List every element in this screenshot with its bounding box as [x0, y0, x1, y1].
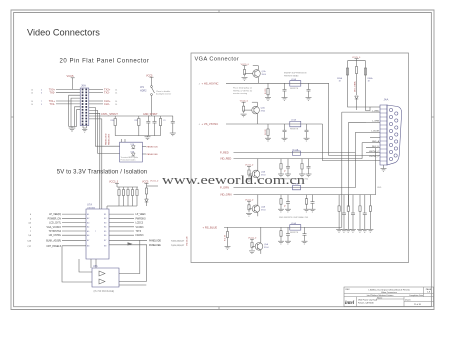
wire pin1 left: [56, 88, 80, 90]
wire pin3 left: [56, 91, 80, 93]
resistor cap pair blue 1: [280, 227, 290, 241]
svg-text:L_BLUE: L_BLUE: [371, 131, 379, 133]
svg-text:L12A: L12A: [291, 78, 296, 81]
vertical bus line 4b: [361, 143, 363, 159]
svg-text:Video Connectors: Video Connectors: [27, 28, 100, 38]
zener box D1: [120, 139, 143, 162]
svg-text:4: 4: [199, 83, 200, 85]
svg-text:PWRON3: PWRON3: [136, 218, 147, 220]
resistor cap pair grn 1: [280, 195, 290, 210]
svg-text:L14A: L14A: [291, 222, 296, 225]
resistor R32 hanging: [159, 116, 161, 136]
power flag VCC5 right cluster: [142, 181, 149, 188]
power flag VCC5: [67, 74, 75, 89]
note EMI suppression: [284, 73, 307, 78]
resistor R40: [145, 188, 147, 199]
svg-text:Protection Diodes: Protection Diodes: [121, 158, 136, 161]
svg-text:intel: intel: [345, 301, 355, 306]
termination rc pair 4: [369, 195, 371, 230]
svg-text:J4A: J4A: [384, 97, 389, 101]
svg-text:GND_STRUT: GND_STRUT: [143, 113, 158, 116]
title block line under row1: [344, 293, 434, 295]
ground Q1: [242, 77, 251, 81]
resistor R31 hanging: [138, 116, 140, 136]
resistor RP1: [118, 187, 120, 206]
svg-text:PANELVEE: PANELVEE: [147, 153, 159, 156]
svg-text:TFT3: TFT3: [136, 231, 142, 233]
grounds grn pair 2: [304, 209, 316, 212]
svg-text:7,8,14,15,16,17: 7,8,14,15,16,17: [171, 245, 184, 247]
gnd rail under cluster: [115, 136, 160, 137]
svg-text:VSYNC_C: VSYNC_C: [369, 156, 379, 158]
ground R60: [225, 247, 231, 250]
series resistor R52A on grn: [293, 183, 301, 190]
series resistor R51A on red: [293, 148, 301, 155]
grounds red pair 1: [278, 174, 291, 177]
svg-text:(IS 74F PACKAGE): (IS 74F PACKAGE): [94, 290, 115, 293]
ferrite L12A: [290, 78, 301, 90]
zener box wires right: [142, 147, 146, 155]
chip left page refs: [27, 214, 31, 248]
wire pin2 right: [89, 88, 103, 90]
DB15 red pin labels: [369, 110, 380, 158]
capacitor C32 vsync: [283, 124, 287, 138]
vertical bus line 3: [355, 131, 366, 133]
svg-text:SMD FERRITE CHIP BEAD 70Ω: SMD FERRITE CHIP BEAD 70Ω: [279, 216, 309, 219]
svg-text:LP_VEE3: LP_VEE3: [136, 214, 147, 216]
title block line under row2: [344, 296, 434, 298]
ground cap blue 2: [302, 241, 308, 244]
svg-text:R 51A: R 51A: [293, 148, 299, 151]
svg-text:U8A: U8A: [93, 265, 98, 268]
svg-text:Folsom, CA 95630: Folsom, CA 95630: [358, 301, 374, 304]
capacitor C30 hsync: [283, 83, 287, 97]
power flag VCC5 backlight: [146, 74, 154, 85]
svg-text:75: 75: [284, 205, 286, 207]
grounds term 2: [345, 229, 356, 232]
DB15 pin circles col1: [389, 108, 392, 160]
svg-text:CNTL_STRUT: CNTL_STRUT: [101, 112, 118, 116]
svg-text:B8: B8: [104, 246, 106, 248]
power flag VCC3_3: [109, 181, 119, 187]
svg-text:HDR2: HDR2: [140, 90, 147, 93]
svg-text:R84A: R84A: [368, 77, 374, 80]
transistor cluster Q2 VSYNC: [240, 100, 266, 124]
svg-text:FERRITE BEAD: FERRITE BEAD: [284, 74, 299, 77]
DB15 bottom ground stem: [381, 165, 387, 171]
ground R10: [265, 98, 271, 101]
vertical bus line 2b: [348, 122, 350, 207]
wire pin4 right: [89, 91, 103, 93]
zener D1a symbol: [131, 143, 136, 149]
svg-text:Q1A: Q1A: [262, 70, 267, 73]
svg-text:A4: A4: [87, 226, 89, 229]
svg-text:J6A: J6A: [81, 83, 86, 87]
svg-text:TX1-: TX1-: [49, 102, 55, 106]
ground Q2: [241, 114, 247, 117]
svg-text:Q5A: Q5A: [264, 243, 269, 246]
svg-text:VID_GRN: VID_GRN: [220, 193, 232, 197]
grounds red pair 2: [299, 174, 312, 177]
svg-text:B4: B4: [104, 227, 106, 229]
svg-text:L13A: L13A: [291, 119, 296, 122]
resistor cap pair red 2: [301, 159, 311, 174]
ground C31: [306, 98, 312, 101]
svg-text:R 100: R 100: [265, 88, 267, 94]
svg-text:20 Pin Flat Panel Connector: 20 Pin Flat Panel Connector: [60, 59, 150, 65]
vertical bus line 5: [375, 148, 377, 195]
svg-text:L_RED: L_RED: [372, 110, 379, 112]
U8A gate symbol 2: [99, 279, 105, 284]
capacitor C22: [171, 116, 175, 133]
wire chip left down to U8A: [62, 246, 92, 282]
title block vertical logo cell: [356, 297, 358, 307]
svg-text:A8: A8: [87, 245, 89, 248]
left ground bus wires: [69, 95, 81, 128]
svg-text:Q4A: Q4A: [261, 205, 266, 208]
wire CNTL bus: [135, 115, 173, 117]
ground R11: [265, 138, 271, 141]
diode center branch: [355, 96, 359, 110]
svg-text:Drawn:: Drawn:: [405, 298, 411, 301]
svg-text:Completion Date: Completion Date: [409, 294, 423, 297]
DB15 pin strip: [380, 105, 387, 165]
svg-text:4: 4: [30, 218, 31, 220]
svg-text:4: 4: [30, 214, 31, 216]
svg-text:QS3384: QS3384: [87, 207, 96, 209]
svg-text:5,6: 5,6: [28, 235, 31, 237]
svg-text:BLNK_ADJ(R): BLNK_ADJ(R): [46, 239, 61, 242]
resistor RP4: [131, 187, 133, 206]
svg-text:Q2A: Q2A: [261, 107, 266, 110]
ground Q3: [246, 179, 252, 182]
wire hsync corner down: [329, 83, 380, 155]
grounds term 4: [367, 229, 373, 232]
svg-text:7,17: 7,17: [27, 246, 31, 248]
ground C33: [304, 138, 310, 141]
resistor R60 blue hanging: [225, 227, 229, 246]
svg-text:Place 100Ω pullup on: Place 100Ω pullup on: [233, 88, 252, 90]
DB15 shell: [387, 105, 402, 165]
ground Q4: [246, 213, 252, 216]
wire P_RED: [234, 152, 356, 154]
svg-text:R83A: R83A: [337, 77, 343, 80]
svg-text:1900 Prairie City Road: 1900 Prairie City Road: [358, 299, 377, 302]
svg-text:75: 75: [284, 170, 286, 172]
zener caption: [121, 156, 138, 161]
wire HSYNC: [226, 82, 329, 84]
svg-text:PANELVEE: PANELVEE: [149, 244, 161, 247]
svg-text:VCC5_0: VCC5_0: [150, 181, 159, 183]
svg-text:7,8,14,15,16,17: 7,8,14,15,16,17: [171, 240, 184, 242]
sheet inner border: [14, 13, 432, 307]
ground symbol left bus: [69, 128, 76, 131]
svg-text:VID_BLUE: VID_BLUE: [187, 236, 189, 246]
svg-text:B1: B1: [104, 214, 106, 216]
termination rc pair 1: [338, 195, 346, 230]
svg-text:R 4.7K: R 4.7K: [225, 234, 227, 241]
svg-text:Name:: Name:: [377, 298, 383, 300]
svg-text:VID_RED: VID_RED: [220, 157, 231, 161]
svg-text:P_RED: P_RED: [220, 151, 229, 155]
svg-text:4,5: 4,5: [28, 223, 31, 225]
note close to disable backlight: [156, 90, 171, 96]
transistor cluster Q1 HSYNC: [241, 64, 267, 84]
svg-text:L_GRN: L_GRN: [372, 121, 379, 123]
transistor cluster Q3 red: [245, 159, 266, 182]
zone tick bottom border: [218, 307, 220, 310]
grounds term 1: [336, 229, 347, 232]
svg-text:FERRITE: FERRITE: [290, 232, 299, 234]
svg-text:A7: A7: [87, 239, 89, 242]
wires bottom pins down: [83, 126, 86, 128]
wire pin8 right: [89, 100, 103, 102]
svg-text:B7: B7: [104, 240, 106, 242]
ferrite grn 2: [305, 195, 314, 210]
svg-text:PANELVDD: PANELVDD: [149, 239, 161, 242]
termination rc pair 3: [359, 195, 367, 230]
grounds term 3: [357, 229, 368, 232]
chip left row wires: [62, 214, 86, 246]
resistor RP2: [122, 187, 124, 206]
ground C32: [282, 138, 288, 141]
svg-text:+ VS_VSYNC: + VS_VSYNC: [202, 122, 219, 126]
svg-text:P_GRN: P_GRN: [220, 186, 229, 190]
grounds grn pair 1: [278, 209, 291, 212]
svg-text:REV: REV: [346, 289, 351, 291]
resistor center branch: [354, 67, 358, 96]
svg-text:PANELVDD: PANELVDD: [147, 145, 159, 148]
svg-text:PAGE: PAGE: [426, 288, 432, 291]
title block vertical page cell: [423, 287, 425, 297]
cap at hsync corner: [310, 82, 312, 84]
svg-text:Video Connectors: Video Connectors: [381, 291, 397, 294]
wire VID_RED: [234, 158, 363, 160]
wire VID_GRN: [234, 194, 376, 196]
svg-text:GND_A: GND_A: [372, 140, 380, 143]
svg-text:VGA Connector: VGA Connector: [195, 57, 240, 63]
DB15 pin circles col2: [394, 112, 398, 157]
svg-text:Close to disable: Close to disable: [156, 90, 171, 93]
svg-text:LWCN3: LWCN3: [136, 235, 145, 237]
svg-text:B2: B2: [104, 218, 106, 220]
svg-text:B6: B6: [104, 235, 106, 237]
svg-text:FERRITE: FERRITE: [290, 88, 299, 90]
vertical bus line 3b: [354, 132, 356, 187]
svg-text:backlight inverter: backlight inverter: [156, 93, 171, 96]
zener D1b symbol: [131, 150, 136, 156]
ground symbol cluster: [145, 137, 151, 140]
wire P_GRN: [234, 187, 356, 189]
svg-text:TX0-: TX0-: [49, 90, 55, 94]
chip right page refs: [171, 240, 184, 247]
ferrite L14A: [290, 222, 301, 234]
wire CTRL row right long: [89, 115, 135, 117]
capacitor C20: [146, 116, 150, 136]
connector J6A body: [80, 88, 89, 126]
title block frame: [344, 287, 434, 307]
ground Q5: [249, 251, 255, 254]
cap blue 2: [303, 227, 307, 241]
wire jumper to bus: [151, 95, 153, 116]
VGA section box: [191, 53, 409, 263]
chip right net labels: [136, 214, 162, 247]
jumper JP1: [151, 86, 155, 96]
resistor R10 pullup hsync: [265, 83, 269, 97]
svg-text:7: 7: [30, 231, 31, 233]
svg-text:VCC5: VCC5: [67, 74, 74, 78]
wire left down second: [79, 259, 92, 272]
transistor cluster Q4 grn: [245, 195, 266, 217]
sheet outer border: [11, 10, 434, 310]
svg-text:21 of 36: 21 of 36: [414, 304, 421, 306]
title block vertical fields cell: [403, 297, 405, 307]
svg-text:A5: A5: [87, 230, 89, 233]
svg-text:EMI/RFI SUPPRESSION: EMI/RFI SUPPRESSION: [284, 73, 307, 75]
svg-text:A2: A2: [87, 217, 89, 220]
svg-text:POWER_ON: POWER_ON: [48, 218, 62, 220]
top right branch cluster rails: [348, 57, 371, 111]
svg-text:+ RS_BLUE: + RS_BLUE: [203, 226, 218, 230]
resistor R83A: [337, 68, 349, 83]
svg-text:VCON3: VCON3: [136, 227, 145, 229]
svg-text:GND: GND: [377, 187, 382, 189]
svg-text:R 52A: R 52A: [293, 183, 299, 186]
svg-text:R 100: R 100: [265, 128, 267, 134]
wire pin9 left: [56, 103, 80, 105]
zone tick top border: [218, 10, 220, 13]
svg-text:Q3A: Q3A: [261, 171, 266, 174]
wire pin7 left: [56, 100, 80, 102]
vertical bus line 4: [362, 142, 366, 144]
chip bottom wires to U8A: [91, 259, 96, 268]
svg-text:LW_CNTRL: LW_CNTRL: [49, 235, 62, 237]
svg-text:TX2-: TX2-: [104, 90, 110, 94]
svg-text:B3: B3: [104, 222, 106, 224]
title block line fields mid: [404, 301, 434, 303]
svg-text:TFT/DSTN4: TFT/DSTN4: [49, 231, 62, 233]
svg-text:LCDC3: LCDC3: [136, 223, 144, 225]
svg-text:4: 4: [30, 227, 31, 229]
transistor cluster Q5 blue: [248, 227, 269, 254]
diode D2: [145, 199, 149, 206]
svg-text:FERRITE: FERRITE: [290, 129, 299, 131]
svg-text:A3: A3: [87, 221, 89, 224]
svg-text:HSYNC_C: HSYNC_C: [369, 151, 379, 153]
svg-text:B5: B5: [104, 231, 106, 233]
resistor array rail: [117, 186, 138, 188]
resistor RP5: [136, 187, 138, 206]
chip left net labels: [46, 214, 62, 248]
stub ddc: [366, 147, 376, 149]
svg-text:4: 4: [199, 124, 200, 126]
capacitor C33 vsync: [305, 124, 309, 138]
net arrow symbol: [128, 242, 133, 245]
resistor R30 hanging: [114, 116, 116, 136]
termination rc pair 2: [347, 195, 355, 230]
svg-text:VGA_VCONO: VGA_VCONO: [46, 226, 61, 229]
svg-text:U7A: U7A: [87, 203, 92, 207]
wire R40 to net right: [147, 185, 159, 187]
resistor cap pair red 1: [280, 159, 290, 174]
wire pin10 right: [89, 103, 103, 105]
svg-text:5,16: 5,16: [27, 240, 31, 242]
svg-text:+ HS_HSYNC: + HS_HSYNC: [202, 81, 219, 85]
ground symbol C22: [170, 133, 176, 136]
zone tick right border: [431, 116, 434, 118]
svg-text:monitor sensing: monitor sensing: [233, 92, 247, 95]
wires right bending down: [89, 108, 120, 210]
svg-text:PANELVEE: PANELVEE: [108, 133, 111, 145]
ferrite L13A: [290, 119, 301, 131]
capacitor C31 hsync: [307, 83, 311, 97]
svg-text:LCD_CNTL: LCD_CNTL: [49, 223, 62, 225]
ground symbol connector bottom: [82, 129, 87, 132]
wire array to chip: [107, 206, 137, 209]
svg-text:A6: A6: [87, 234, 89, 237]
ground C30: [282, 98, 288, 101]
resistor RP3: [127, 187, 129, 206]
U8A right wires loop: [119, 240, 146, 285]
U8A gate symbol 1: [99, 271, 105, 276]
U8A gate box: [92, 268, 119, 287]
zone tick left border: [11, 116, 14, 118]
note place 100ohm: [233, 88, 253, 95]
svg-text:DDC_DATA: DDC_DATA: [354, 81, 357, 92]
grounds blue pair 1: [278, 241, 291, 244]
svg-text:SMD FERRITE CHIP BEAD 70Ω: SMD FERRITE CHIP BEAD 70Ω: [279, 177, 309, 180]
chip U7A body: [86, 209, 109, 259]
svg-text:HSYNC & VSYNC for: HSYNC & VSYNC for: [233, 90, 253, 92]
svg-text:CLK-: CLK-: [104, 102, 110, 106]
svg-text:LP_VEE(D): LP_VEE(D): [49, 214, 61, 216]
vertical bus line 1: [342, 111, 366, 113]
DB15 left stubs with labels: [366, 107, 380, 153]
wire VSYNC: [226, 123, 323, 125]
svg-text:LS486 (+5v) Chipset (SmartSwit: LS486 (+5v) Chipset (SmartSwitch PDCS): [368, 289, 409, 292]
chip U7A internal pins text: [87, 213, 106, 248]
wire RS_BLUE: [224, 226, 342, 228]
capacitor C21: [153, 116, 157, 136]
svg-text:CRT_PANEL5: CRT_PANEL5: [46, 245, 61, 248]
resistor R84A: [364, 68, 373, 83]
vertical bus line 1b: [341, 112, 343, 227]
wire vsync corner down: [323, 124, 381, 161]
vertical bus line 2: [349, 121, 366, 123]
svg-text:A1: A1: [87, 213, 89, 216]
svg-text:PANELVDD: PANELVDD: [104, 133, 107, 145]
chip right row wires short: [109, 214, 147, 245]
title block mid divider: [376, 298, 404, 300]
resistor R11 pullup vsync: [265, 124, 269, 138]
